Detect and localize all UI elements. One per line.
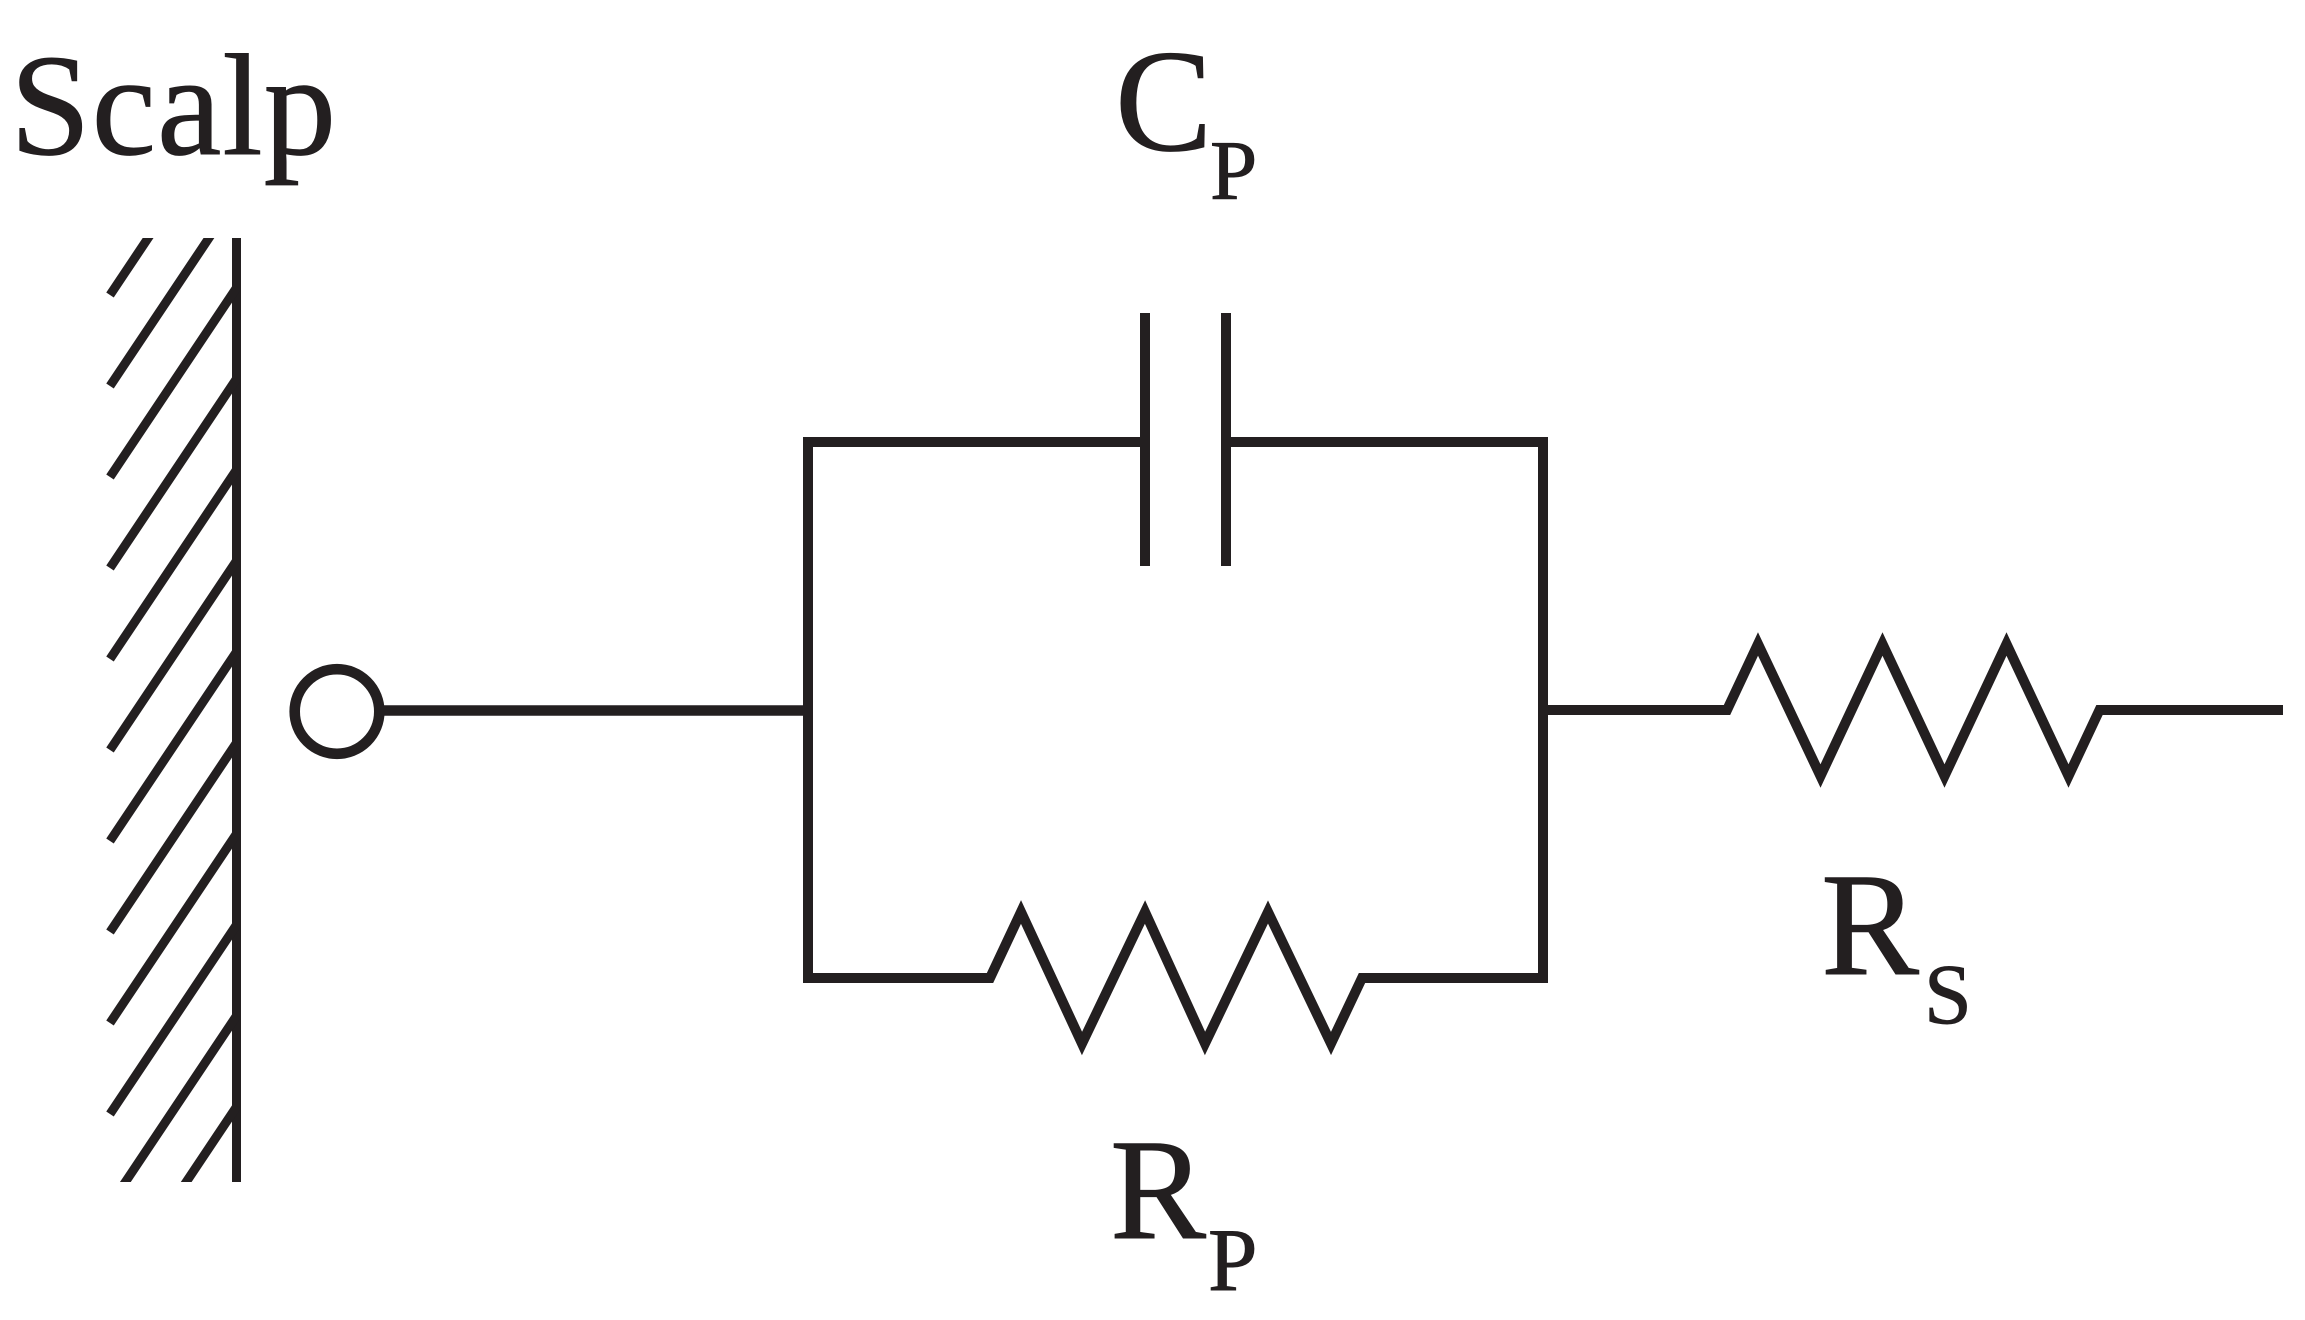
resistor RS (series zigzag) bbox=[1721, 644, 2106, 776]
svg-text:P: P bbox=[1208, 1212, 1258, 1310]
electrode node circle bbox=[295, 669, 380, 754]
svg-text:R: R bbox=[1821, 843, 1919, 1006]
wire: left branch of parallel loop (top-left, left edge, bottom-left) bbox=[808, 442, 1150, 978]
svg-text:P: P bbox=[1210, 124, 1257, 218]
wire: output lead to the right bbox=[2100, 705, 2284, 715]
svg-text:S: S bbox=[1924, 946, 1972, 1042]
svg-text:R: R bbox=[1110, 1111, 1206, 1270]
capacitor CP right plate bbox=[1221, 313, 1231, 566]
svg-text:Scalp: Scalp bbox=[10, 26, 337, 186]
wire: right branch of parallel loop (bottom-right, right edge, top-right) bbox=[1221, 442, 1543, 978]
resistor RP (zigzag, parallel bottom branch) bbox=[984, 912, 1368, 1044]
scalp wall hatching bbox=[110, 105, 237, 1296]
capacitor CP left plate bbox=[1140, 313, 1150, 566]
svg-text:C: C bbox=[1115, 20, 1212, 182]
wire from parallel network node B to resistor RS bbox=[1543, 705, 1727, 715]
wire from electrode node to parallel network node A bbox=[383, 705, 810, 716]
scalp wall line bbox=[232, 238, 241, 1182]
